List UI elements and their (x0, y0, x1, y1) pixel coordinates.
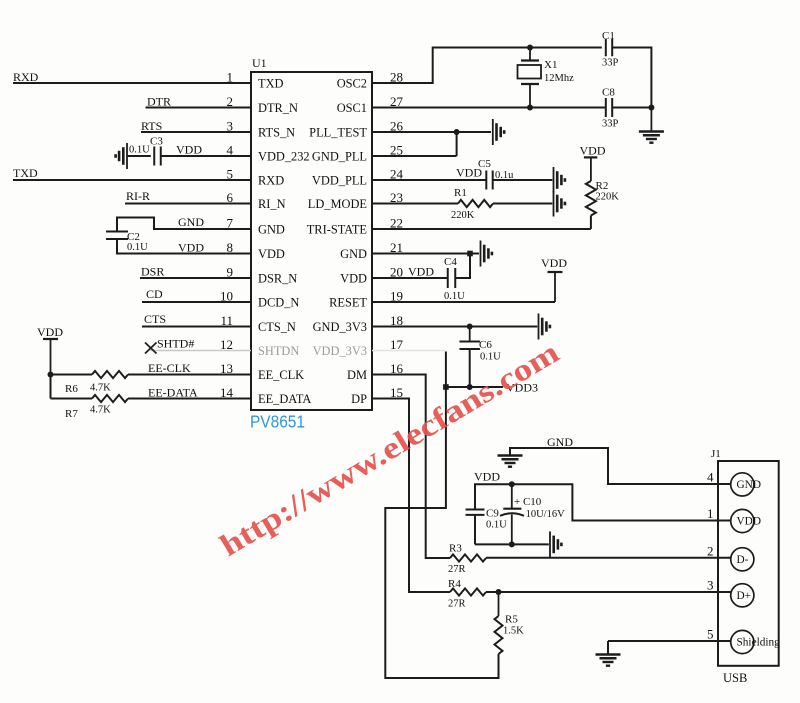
resistor R4 (450, 588, 486, 595)
label R1 (454, 187, 467, 199)
svg-text:VDD: VDD (178, 241, 204, 255)
svg-text:CD: CD (146, 287, 163, 301)
wire R3 to USB D- (486, 557, 731, 559)
label R7 (65, 408, 78, 420)
pin 19 name label RESET (329, 296, 367, 310)
wire R2 to pin 22 (590, 216, 592, 230)
svg-text:TXD: TXD (258, 77, 284, 91)
capacitor C6 (459, 327, 480, 349)
pin 25 name label GND_PLL (312, 150, 367, 164)
label R3 (449, 543, 462, 555)
svg-text:D+: D+ (737, 590, 752, 602)
connector J1 pin 2 circle D- (731, 548, 754, 571)
junction at VDD/EE-CLK (48, 372, 54, 378)
capacitor C5 (486, 171, 492, 190)
svg-text:Shielding: Shielding (737, 637, 781, 649)
svg-text:OSC2: OSC2 (337, 77, 367, 91)
wire pin 20 VDD (372, 277, 448, 279)
svg-text:DTR: DTR (147, 95, 171, 109)
svg-text:EE_CLK: EE_CLK (258, 368, 304, 382)
connector J1 body (718, 461, 779, 666)
svg-text:0.1U: 0.1U (444, 291, 465, 302)
svg-text:1.5K: 1.5K (503, 626, 524, 637)
svg-text:4.7K: 4.7K (90, 405, 111, 416)
svg-text:C3: C3 (150, 136, 163, 148)
svg-text:VDD: VDD (340, 272, 367, 286)
svg-text:GND: GND (178, 215, 204, 229)
wire pin 16 DM (372, 375, 450, 559)
svg-text:12Mhz: 12Mhz (544, 73, 574, 84)
wire pin 25 GND_PLL (372, 132, 457, 156)
svg-text:PV8651: PV8651 (250, 412, 305, 432)
net label CTS (144, 312, 166, 326)
resistor R7 (92, 395, 128, 402)
power symbol VDD at RESET (541, 256, 567, 302)
label C5 (478, 158, 491, 170)
pin number 23 (390, 190, 403, 205)
pin number 27 (390, 94, 404, 109)
svg-text:CTS_N: CTS_N (258, 320, 296, 334)
net label GND on pin 7 (178, 215, 204, 229)
svg-text:10U/16V: 10U/16V (526, 509, 566, 520)
net label VDD on pin 4 wire (176, 143, 202, 157)
net label SHTD# (157, 337, 194, 351)
label R2 (596, 180, 609, 192)
pin number 25 (390, 143, 403, 158)
svg-text:GND: GND (340, 247, 367, 261)
pin 13 name label EE_CLK (258, 368, 304, 382)
wire VDD3 to R5 loop (385, 387, 498, 678)
svg-text:VDD: VDD (258, 247, 285, 261)
ground (sideways) below C10 (550, 531, 561, 557)
wire USB shield to ground (608, 641, 731, 655)
junction VDD3 corner (443, 384, 449, 390)
svg-text:RTS: RTS (141, 119, 162, 133)
net label DTR (147, 95, 171, 109)
junction OSC2/crystal top (527, 45, 533, 51)
svg-text:R5: R5 (505, 614, 518, 626)
net label RTS (141, 119, 162, 133)
ground (sideways) at pin 18 (539, 314, 550, 340)
connector J1 pin 5 number (707, 627, 714, 642)
svg-text:VDD: VDD (474, 470, 500, 484)
svg-text:220K: 220K (596, 192, 620, 203)
svg-text:R6: R6 (65, 383, 78, 395)
resistor R2 (586, 181, 596, 216)
svg-text:USB: USB (723, 671, 747, 685)
pin 18 name label GND_3V3 (313, 320, 367, 334)
wire ground to C3 (127, 155, 151, 157)
pin 3 name label RTS_N (258, 126, 295, 140)
svg-text:RTS_N: RTS_N (258, 126, 295, 140)
pin number 18 (390, 313, 403, 328)
pin number 20 (390, 265, 403, 280)
svg-text:CTS: CTS (144, 312, 166, 326)
power symbol VDD (left) (37, 325, 63, 375)
label C4 (444, 256, 457, 268)
net label VDD on pin 8 (178, 241, 204, 255)
connector J1 pin 3 circle D+ (731, 584, 754, 607)
svg-text:RI_N: RI_N (258, 197, 286, 211)
connector J1 pin 2 number (707, 543, 714, 558)
pin number 6 (227, 190, 234, 205)
svg-text:VDD_3V3: VDD_3V3 (313, 344, 367, 358)
ground (sideways) at pin 23 (554, 191, 565, 217)
svg-text:VDD: VDD (176, 143, 202, 157)
svg-text:GND_PLL: GND_PLL (312, 150, 367, 164)
net label EE-DATA (148, 386, 198, 400)
svg-text:SHTDN: SHTDN (258, 344, 299, 358)
svg-text:RI-R: RI-R (126, 189, 150, 203)
wire pin 26 PLL_TEST (372, 131, 491, 133)
pin number 7 (227, 216, 234, 231)
pin number 1 (227, 70, 234, 85)
wire GND net (510, 448, 731, 484)
wire pin 15 DP (372, 399, 450, 593)
svg-text:27R: 27R (448, 564, 466, 575)
pin number 15 (390, 385, 403, 400)
pin 1 name label TXD (258, 77, 284, 91)
capacitor C4 (448, 268, 456, 288)
pin 12 name label SHTDN (258, 344, 299, 358)
value 10U/16V of C10 (526, 509, 566, 520)
connector J1 pin 4 number (707, 470, 714, 485)
value 0.1U of C2 (127, 242, 148, 253)
value 0.1U of C3 (129, 145, 150, 156)
wire pin 17 riser to VDD3 (445, 352, 447, 388)
svg-text:DTR_N: DTR_N (258, 101, 298, 115)
label R5 (505, 614, 518, 626)
value 33P of C8 (602, 119, 619, 130)
svg-text:U1: U1 (252, 56, 267, 70)
svg-text:DM: DM (347, 368, 367, 382)
ground (sideways) at pin 26 (493, 119, 504, 145)
svg-text:LD_MODE: LD_MODE (308, 197, 367, 211)
IC U1 part number PV8651 (250, 412, 305, 432)
pin 21 name label GND (340, 247, 367, 261)
svg-text:C4: C4 (444, 256, 457, 268)
ground (sideways) at C3 (116, 143, 127, 169)
capacitor C10 (polarized) (500, 484, 524, 544)
svg-text:TXD: TXD (13, 166, 38, 180)
wire R6 to pin 13 (128, 374, 251, 376)
pin 6 name label RI_N (258, 197, 286, 211)
wire pin 23 LD_MODE (372, 203, 458, 205)
junction pin25/pin26 (454, 129, 460, 135)
wire C5 to ground (493, 179, 553, 181)
svg-text:C1: C1 (602, 30, 615, 42)
net label EE-CLK (148, 361, 191, 375)
label + C10 (514, 496, 542, 508)
pin number 10 (220, 289, 233, 304)
junction OSC net / ground (648, 105, 654, 111)
net label GND (USB) (547, 435, 573, 449)
wire pin 27 OSC1 (372, 107, 606, 109)
svg-text:R1: R1 (454, 187, 467, 199)
svg-text:+ C10: + C10 (514, 496, 542, 508)
ground (earth) below crystal caps (639, 108, 664, 143)
label C3 (150, 136, 163, 148)
capacitor C2 (106, 231, 128, 239)
wire C2 top to pin 7 GND (117, 218, 251, 232)
svg-text:5: 5 (707, 627, 714, 642)
svg-text:EE-CLK: EE-CLK (148, 361, 191, 375)
wire pin 11 CTS (142, 326, 251, 328)
svg-text:C9: C9 (486, 508, 499, 520)
svg-text:4: 4 (707, 470, 714, 485)
wire C1 to corner (612, 48, 651, 108)
wire pin 5 TXD (13, 179, 251, 181)
pin 9 name label DSR_N (258, 272, 297, 286)
svg-text:D-: D- (737, 554, 749, 566)
pin 16 name label DM (347, 368, 367, 382)
wire VDD to R6 (51, 375, 93, 399)
value 0.1U of C4 (444, 291, 465, 302)
svg-text:0.1U: 0.1U (127, 242, 148, 253)
svg-text:R3: R3 (449, 543, 462, 555)
net label DSR (141, 265, 164, 279)
svg-text:DSR: DSR (141, 265, 164, 279)
wire pin 10 CD (142, 301, 251, 303)
connector J1 pin 1 circle VDD (731, 509, 761, 532)
IC U1 refdes label (252, 56, 267, 70)
junction pin 18 / C6 (467, 324, 473, 330)
svg-text:VDD: VDD (37, 325, 63, 339)
svg-text:EE-DATA: EE-DATA (148, 386, 198, 400)
wire C6 to VDD3 net (469, 349, 471, 387)
svg-text:EE_DATA: EE_DATA (258, 392, 311, 406)
capacitor C3 (154, 147, 161, 166)
pin number 28 (390, 70, 403, 85)
svg-text:DP: DP (351, 392, 367, 406)
wire C2 bottom to pin 8 VDD (117, 239, 251, 254)
wire pin 21 GND (372, 253, 479, 255)
net label VDD on pin 20 (408, 265, 434, 279)
value 220K of R2 (596, 192, 620, 203)
svg-text:3: 3 (707, 578, 714, 593)
label C9 (486, 508, 499, 520)
wire pin 28 OSC2 (372, 48, 602, 84)
pin 24 name label VDD_PLL (312, 174, 367, 188)
svg-text:GND: GND (258, 223, 285, 237)
svg-text:VDD_PLL: VDD_PLL (312, 174, 367, 188)
wire VDD3 net (446, 386, 503, 388)
svg-text:220K: 220K (451, 210, 475, 221)
crystal X1 (518, 48, 542, 108)
pin number 12 (220, 337, 233, 352)
svg-text:PLL_TEST: PLL_TEST (309, 126, 367, 140)
svg-text:DSR_N: DSR_N (258, 272, 297, 286)
connector J1 pin 4 circle GND (731, 473, 761, 496)
wire pin 18 GND_3V3 (372, 326, 537, 328)
svg-text:VDD: VDD (737, 516, 761, 528)
no-connect X at pin 12 (145, 343, 157, 354)
value 0.1u of C5 (495, 170, 514, 181)
junction D+ / R5 (496, 589, 502, 595)
pin 17 name label VDD_3V3 (313, 344, 367, 358)
svg-text:27R: 27R (448, 599, 466, 610)
pin number 14 (220, 385, 234, 400)
net label RI-R (126, 189, 150, 203)
value 12Mhz of X1 (544, 73, 574, 84)
pin number 11 (220, 313, 233, 328)
capacitor C1 (606, 39, 612, 57)
svg-text:OSC1: OSC1 (337, 101, 367, 115)
wire C8 to ground node (612, 107, 651, 109)
svg-text:GND: GND (547, 435, 573, 449)
resistor R3 (450, 554, 486, 561)
pin 28 name label OSC2 (337, 77, 367, 91)
net label TXD (13, 166, 38, 180)
connector J1 pin 5 circle Shielding (731, 630, 780, 653)
net label RXD (13, 70, 39, 84)
svg-text:0.1U: 0.1U (486, 520, 507, 531)
pin 27 name label OSC1 (337, 101, 367, 115)
connector J1 pin 1 number (707, 506, 714, 521)
wire pin 17 VDD_3V3 (faint) (372, 350, 446, 352)
label C8 (602, 87, 615, 99)
capacitor C9 (466, 510, 485, 515)
pin number 17 (390, 337, 404, 352)
svg-text:4.7K: 4.7K (90, 383, 111, 394)
junction crystal bottom / OSC1 (527, 105, 533, 111)
net label VDD on pin 24 (456, 166, 482, 180)
label C1 (602, 30, 615, 42)
pin 5 name label RXD (258, 174, 284, 188)
net label VDD3 (506, 381, 538, 395)
pin 8 name label VDD (258, 247, 285, 261)
pin number 13 (220, 361, 233, 376)
wire R4 to USB D+ (486, 591, 731, 593)
label C2 (127, 231, 140, 243)
ground (earth) at GND net (498, 456, 523, 467)
net label VDD (USB) (474, 470, 500, 484)
value 33P of C1 (602, 58, 619, 69)
svg-text:VDD: VDD (580, 144, 606, 158)
svg-text:C8: C8 (602, 87, 615, 99)
junction C10 bottom / rail (509, 541, 515, 547)
ground (earth) at shield (596, 655, 621, 666)
svg-text:0.1U: 0.1U (129, 145, 150, 156)
label C6 (479, 339, 492, 351)
label X1 (544, 59, 557, 71)
wire pin 2 DTR (146, 107, 252, 109)
net label CD (146, 287, 163, 301)
wire C9 bottom (474, 515, 476, 545)
wire VDD net top (475, 484, 731, 520)
svg-text:R2: R2 (596, 180, 609, 192)
pin 15 name label DP (351, 392, 367, 406)
wire C3 to pin 4 (161, 155, 251, 157)
svg-text:J1: J1 (711, 448, 721, 460)
pin 14 name label EE_DATA (258, 392, 311, 406)
label R4 (448, 578, 461, 590)
wire pin 12 SHTD# (faint) (150, 350, 251, 352)
svg-text:0.1U: 0.1U (480, 352, 501, 363)
value 1.5K of R5 (503, 626, 524, 637)
wire pin 24 VDD_PLL (372, 179, 486, 181)
pin 10 name label DCD_N (258, 296, 299, 310)
svg-text:GND_3V3: GND_3V3 (313, 320, 367, 334)
capacitor C8 (606, 98, 612, 117)
svg-text:1: 1 (707, 506, 714, 521)
resistor R5 (495, 592, 503, 654)
IC U1 body (251, 72, 372, 410)
connector J1 pin 3 number (707, 578, 714, 593)
pin 11 name label CTS_N (258, 320, 296, 334)
wire R1 to ground (493, 203, 552, 205)
svg-text:VDD: VDD (541, 256, 567, 270)
label USB (723, 671, 747, 685)
pin number 26 (390, 119, 404, 134)
pin number 9 (227, 265, 234, 280)
value 0.1U of C6 (480, 352, 501, 363)
pin 20 name label VDD (340, 272, 367, 286)
svg-text:TRI-STATE: TRI-STATE (307, 223, 367, 237)
resistor R1 (458, 200, 493, 207)
label R6 (65, 383, 78, 395)
value 0.1U of C9 (486, 520, 507, 531)
svg-text:RXD: RXD (13, 70, 39, 84)
pin number 24 (390, 167, 404, 182)
wire ground rail below C9/C10 (475, 543, 549, 545)
wire pin 3 RTS (141, 131, 251, 133)
power symbol VDD above R2 (580, 144, 606, 182)
svg-text:C6: C6 (479, 339, 492, 351)
pin number 21 (390, 240, 403, 255)
value 4.7K of R6 (90, 383, 111, 394)
wire VDD to R7 (51, 398, 93, 400)
value 220K of R1 (451, 210, 475, 221)
svg-text:SHTD#: SHTD# (157, 337, 194, 351)
resistor R6 (92, 371, 128, 378)
wire pin 6 RI-R (125, 203, 251, 205)
ground (sideways) at pin 24 (554, 167, 565, 193)
label J1 (711, 448, 721, 460)
svg-text:VDD: VDD (408, 265, 434, 279)
pin 7 name label GND (258, 223, 285, 237)
watermark (214, 334, 565, 563)
svg-text:R7: R7 (65, 408, 78, 420)
svg-text:RESET: RESET (329, 296, 367, 310)
pin number 8 (227, 240, 234, 255)
svg-text:R4: R4 (448, 578, 461, 590)
svg-text:33P: 33P (602, 119, 619, 130)
wire C4 to pin 21 junction (455, 254, 470, 279)
svg-text:X1: X1 (544, 59, 557, 71)
wire pin 22 TRI-STATE (372, 228, 591, 230)
svg-text:VDD_232: VDD_232 (258, 150, 310, 164)
svg-text:2: 2 (707, 543, 714, 558)
pin number 16 (390, 361, 404, 376)
svg-text:C5: C5 (478, 158, 491, 170)
wire pin 1 RXD (13, 82, 251, 84)
pin number 22 (390, 216, 403, 231)
pin 26 name label PLL_TEST (309, 126, 367, 140)
junction C6 / VDD3 (467, 384, 473, 390)
value 27R of R4 (448, 599, 466, 610)
svg-text:33P: 33P (602, 58, 619, 69)
pin number 19 (390, 289, 403, 304)
pin number 2 (227, 94, 234, 109)
value 4.7K of R7 (90, 405, 111, 416)
svg-text:0.1u: 0.1u (495, 170, 514, 181)
junction pin 21 / C4 (467, 251, 473, 257)
pin 22 name label TRI-STATE (307, 223, 367, 237)
pin number 3 (227, 119, 234, 134)
pin 4 name label VDD_232 (258, 150, 310, 164)
wire pin 9 DSR (140, 277, 251, 279)
